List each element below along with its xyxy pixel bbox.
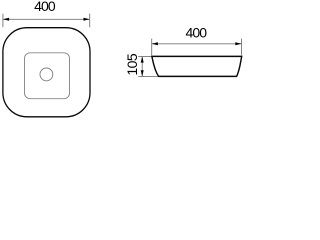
side view: 105 bottom extension tick xyxy=(138,76,158,78)
side view: basin profile outline xyxy=(152,56,242,76)
top view: right arrowhead xyxy=(84,18,90,21)
svg-text:400: 400 xyxy=(185,24,207,40)
side view: 400 left arrowhead xyxy=(152,42,158,45)
svg-text:105: 105 xyxy=(124,53,140,76)
top view: right extension tick xyxy=(89,14,91,28)
side view: 400 right arrowhead xyxy=(235,42,241,45)
side view: left extension tick of 400 xyxy=(151,39,153,56)
top view: drain hole circle xyxy=(40,68,53,81)
side view: dimension line 400 xyxy=(152,43,242,45)
side view: dimension line 105 xyxy=(141,56,143,76)
side view: 105 top extension tick xyxy=(138,56,152,58)
side view: right extension tick of 400 xyxy=(241,39,243,56)
top view: dimension line 400 xyxy=(3,18,90,20)
side view: 105 top arrowhead xyxy=(141,56,144,62)
top view: outer rim (rounded square) xyxy=(3,28,90,117)
top view: left extension tick xyxy=(2,14,4,28)
side view: 105 bottom arrowhead xyxy=(141,70,144,76)
top view: inner bowl edge (rounded square) xyxy=(25,53,70,99)
top view: left arrowhead xyxy=(3,18,9,21)
svg-text:400: 400 xyxy=(34,0,56,14)
